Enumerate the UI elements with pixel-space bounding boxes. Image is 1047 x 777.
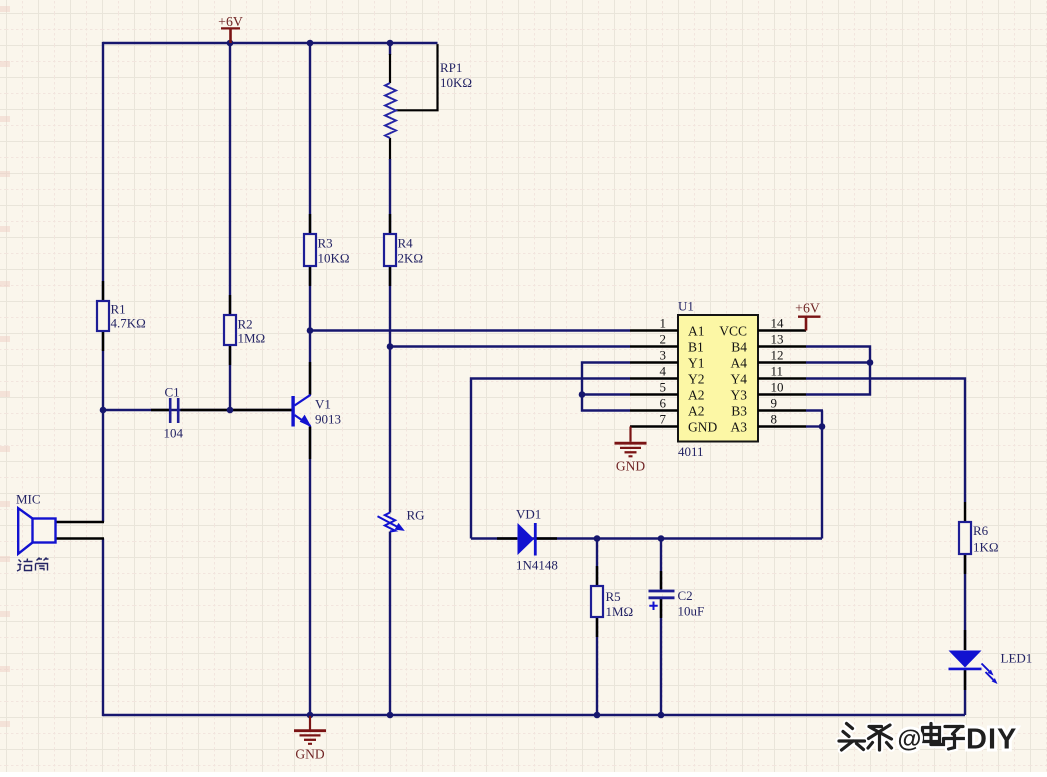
- U1 pin 5 stub: [630, 393, 678, 395]
- svg-text:+6V: +6V: [795, 301, 820, 316]
- MIC leads: [56, 522, 105, 539]
- wire left rail upper: [102, 42, 104, 522]
- junction top rail / R2: [227, 40, 234, 47]
- svg-text:11: 11: [771, 364, 784, 379]
- svg-text:10KΩ: 10KΩ: [318, 251, 350, 266]
- svg-text:DIY: DIY: [966, 724, 1017, 756]
- svg-text:GND: GND: [616, 459, 645, 474]
- svg-text:Y4: Y4: [731, 371, 748, 386]
- C1 pin leads / V1 base lead: [151, 409, 292, 411]
- wire C1 base wire: [103, 409, 292, 411]
- wire left rail lower: [102, 539, 104, 717]
- junction C2 / diode net: [658, 535, 665, 542]
- svg-text:10uF: 10uF: [678, 604, 705, 619]
- potentiometer RP1: [385, 83, 396, 138]
- R2 pin leads: [229, 295, 231, 365]
- svg-text:A1: A1: [688, 323, 705, 338]
- R5 pin leads: [596, 566, 598, 637]
- svg-text:10KΩ: 10KΩ: [440, 75, 472, 90]
- LED1 pin leads: [964, 630, 966, 690]
- svg-text:10: 10: [771, 380, 784, 395]
- svg-text:4: 4: [660, 364, 667, 379]
- svg-text:RP1: RP1: [440, 60, 462, 75]
- svg-text:+6V: +6V: [218, 14, 243, 29]
- junction top rail / R3: [307, 40, 314, 47]
- svg-text:VD1: VD1: [516, 507, 541, 522]
- svg-text:14: 14: [771, 316, 785, 331]
- svg-text:A2: A2: [688, 387, 705, 402]
- R1 pin leads: [102, 281, 104, 351]
- junction bottom rail / RG: [387, 712, 394, 719]
- junction pin8 / pin9 net: [819, 423, 826, 430]
- MIC chinese label 话筒: [17, 558, 49, 572]
- svg-text:C2: C2: [678, 588, 693, 603]
- wire pin11 to R6: [806, 379, 965, 503]
- junction bottom rail / R5: [594, 712, 601, 719]
- svg-text:4011: 4011: [678, 444, 704, 459]
- svg-text:5: 5: [660, 380, 667, 395]
- junction bottom rail / C2: [658, 712, 665, 719]
- resistor R1: [97, 301, 109, 331]
- svg-text:1KΩ: 1KΩ: [973, 540, 999, 555]
- wire node R3 to pin1: [310, 329, 630, 331]
- U1 pin 9 stub: [758, 409, 806, 411]
- resistor R6: [959, 522, 971, 554]
- junction bottom rail / emitter: [307, 712, 314, 719]
- svg-text:C1: C1: [165, 385, 180, 400]
- junction pin5 / pin3-6 loop: [579, 391, 586, 398]
- resistor R4: [384, 234, 396, 266]
- svg-text:B1: B1: [688, 339, 704, 354]
- svg-text:1N4148: 1N4148: [516, 558, 558, 573]
- resistor R3: [304, 234, 316, 266]
- svg-text:Y1: Y1: [688, 355, 705, 370]
- svg-text:A2: A2: [688, 403, 705, 418]
- svg-text:B4: B4: [731, 339, 747, 354]
- U1 pin 3 stub: [630, 361, 678, 363]
- U1 pin 4 stub: [630, 377, 678, 379]
- wire diode net horizontal: [471, 537, 822, 539]
- junction R5 / diode net: [594, 535, 601, 542]
- LED LED1: [949, 651, 982, 668]
- svg-text:2KΩ: 2KΩ: [398, 251, 424, 266]
- wire C2 branch: [660, 539, 662, 591]
- svg-text:104: 104: [164, 426, 184, 441]
- power +6V at U1 pin14: [798, 316, 821, 318]
- svg-text:1MΩ: 1MΩ: [606, 604, 634, 619]
- U1 pin 11 stub: [758, 377, 806, 379]
- RP1 bottom pin lead: [389, 138, 391, 160]
- svg-text:R4: R4: [398, 236, 414, 251]
- wire emitter branch x=310 lower: [309, 427, 311, 716]
- U1 pin 13 stub: [758, 345, 806, 347]
- capacitor C1: [169, 398, 172, 423]
- U1 pin 14 stub: [758, 329, 806, 331]
- svg-text:4.7KΩ: 4.7KΩ: [111, 316, 146, 331]
- wire R6 to LED: [964, 554, 966, 650]
- wire pin5 stub wire: [582, 393, 630, 395]
- svg-text:GND: GND: [688, 419, 717, 434]
- svg-text:R6: R6: [973, 523, 989, 538]
- svg-text:R1: R1: [111, 302, 126, 317]
- R4 pin leads: [389, 214, 391, 286]
- wire C2 to bottom rail: [660, 598, 662, 715]
- svg-text:LED1: LED1: [1001, 651, 1033, 666]
- svg-text:MIC: MIC: [16, 492, 41, 507]
- svg-text:U1: U1: [678, 299, 694, 314]
- V1 collector/emitter pin leads: [309, 362, 311, 459]
- svg-text:9: 9: [771, 396, 778, 411]
- wire pin9 link: [806, 409, 823, 411]
- VD1 pin leads: [497, 537, 557, 539]
- microphone MIC: [33, 519, 56, 543]
- watermark 头条 @电子DIY: [839, 724, 967, 751]
- wire LED to bottom rail: [964, 669, 966, 715]
- svg-text:3: 3: [660, 348, 667, 363]
- svg-text:6: 6: [660, 396, 667, 411]
- resistor R2: [224, 315, 236, 345]
- svg-text:GND: GND: [295, 747, 324, 762]
- svg-text:A3: A3: [731, 419, 748, 434]
- svg-text:1: 1: [660, 316, 667, 331]
- svg-text:8: 8: [771, 412, 778, 427]
- wire pin3 to pin6 loop: [582, 363, 630, 411]
- diode VD1 1N4148: [518, 523, 535, 555]
- ground GND bottom: [309, 716, 311, 730]
- U1 pin 12 stub: [758, 361, 806, 363]
- svg-text:R5: R5: [606, 589, 621, 604]
- wire pin13 to pin10 loop: [806, 347, 870, 395]
- U1 pin 7 stub: [630, 425, 678, 427]
- U1 pin 8 stub: [758, 425, 806, 427]
- junction R3 node / pin1 wire: [307, 327, 314, 334]
- R3 pin leads: [309, 214, 311, 286]
- svg-text:R2: R2: [238, 317, 253, 332]
- wire diode net vertical x=822: [821, 411, 823, 539]
- svg-text:9013: 9013: [315, 412, 341, 427]
- junction R2 / C1 wire: [227, 407, 234, 414]
- wire pin8 link: [806, 425, 822, 427]
- C2 pin leads: [660, 571, 662, 618]
- wire node R4 to pin2: [390, 345, 630, 347]
- svg-text:Y2: Y2: [688, 371, 705, 386]
- transistor V1 9013: [291, 396, 294, 427]
- svg-text:7: 7: [660, 412, 667, 427]
- wire RG to bottom rail: [389, 532, 391, 716]
- svg-text:R3: R3: [318, 236, 333, 251]
- junction top rail / RP1: [387, 40, 394, 47]
- wire R3/collector branch x=310 upper: [309, 43, 311, 395]
- U1 pin 2 stub: [630, 345, 678, 347]
- svg-text:1MΩ: 1MΩ: [238, 331, 266, 346]
- U1 pin 1 stub: [630, 329, 678, 331]
- svg-text:Y3: Y3: [731, 387, 748, 402]
- resistor R5: [591, 586, 603, 617]
- junction R4 node / pin2 wire: [387, 343, 394, 350]
- variable resistor RG: [385, 513, 395, 532]
- U1 pin 6 stub: [630, 409, 678, 411]
- svg-text:B3: B3: [731, 403, 747, 418]
- wire RP1 wiper arm: [396, 44, 438, 110]
- wire R5 to bottom rail: [596, 617, 598, 715]
- svg-text:V1: V1: [315, 397, 331, 412]
- junction left rail / C1 wire: [100, 407, 107, 414]
- wire pin4 to diode net: [471, 379, 630, 539]
- wire R4/RG branch x=390: [389, 43, 391, 55]
- R6 pin leads: [964, 502, 966, 574]
- power +6V top: [221, 27, 240, 29]
- wire +6V top rail: [103, 42, 438, 44]
- svg-text:@: @: [898, 726, 922, 753]
- capacitor C2: [649, 590, 675, 593]
- svg-text:12: 12: [771, 348, 784, 363]
- U1 pin 10 stub: [758, 393, 806, 395]
- op-amp U1 4011 quad NAND body: [678, 315, 758, 442]
- svg-text:2: 2: [660, 332, 667, 347]
- svg-text:RG: RG: [407, 508, 425, 523]
- wire R2 branch x=230: [229, 43, 231, 410]
- svg-text:A4: A4: [731, 355, 748, 370]
- junction pin12 / pin13-10 loop: [867, 359, 874, 366]
- svg-text:VCC: VCC: [719, 323, 747, 338]
- ground GND at U1 pin7: [629, 427, 631, 442]
- wire ground bottom rail: [103, 714, 965, 716]
- wire R5 branch: [596, 539, 598, 587]
- wire RP1 to R4: [389, 159, 391, 513]
- wire pin12 link: [806, 361, 870, 363]
- RP1 top pin lead: [389, 54, 391, 83]
- svg-text:13: 13: [771, 332, 784, 347]
